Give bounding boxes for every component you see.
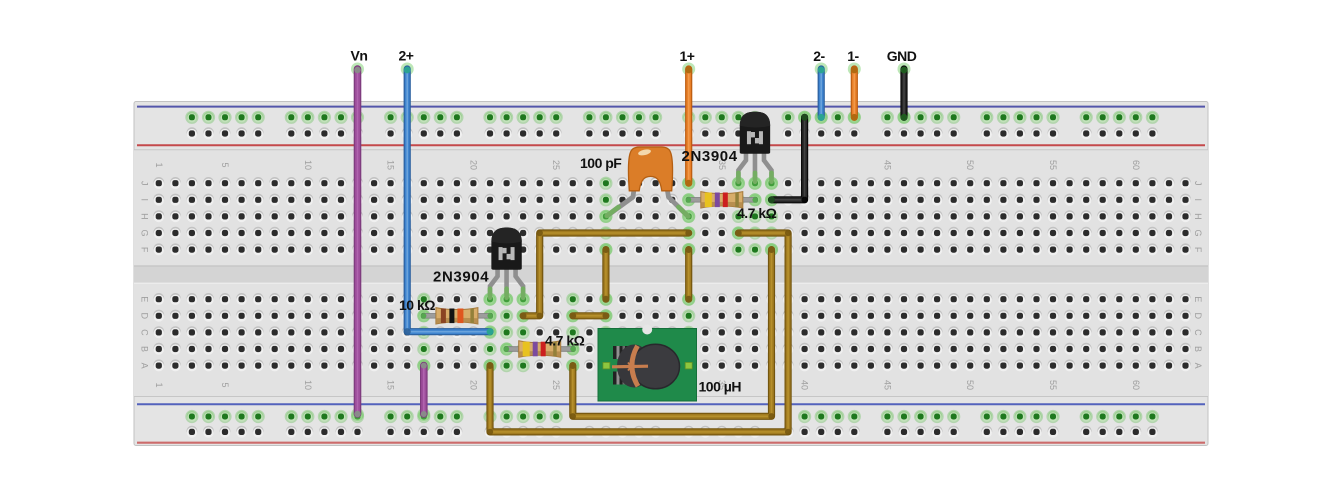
svg-text:2N3904: 2N3904 (682, 148, 738, 165)
svg-text:B: B (140, 346, 150, 352)
svg-text:4.7 kΩ: 4.7 kΩ (545, 333, 585, 349)
svg-text:5: 5 (220, 382, 230, 387)
svg-text:F: F (1193, 247, 1203, 253)
svg-text:60: 60 (1131, 160, 1141, 170)
svg-text:25: 25 (551, 160, 561, 170)
svg-text:50: 50 (965, 380, 975, 390)
svg-text:55: 55 (1048, 160, 1058, 170)
svg-text:J: J (140, 181, 150, 186)
svg-text:B: B (1193, 346, 1203, 352)
svg-text:100 µH: 100 µH (699, 379, 742, 395)
svg-text:E: E (1193, 296, 1203, 302)
svg-text:4.7 kΩ: 4.7 kΩ (737, 205, 777, 221)
svg-text:1+: 1+ (680, 48, 695, 64)
svg-text:10: 10 (303, 160, 313, 170)
svg-text:1-: 1- (847, 48, 859, 64)
svg-text:D: D (1193, 313, 1203, 320)
svg-text:A: A (140, 363, 150, 369)
svg-text:D: D (140, 313, 150, 320)
svg-text:1: 1 (154, 162, 164, 167)
svg-text:45: 45 (882, 160, 892, 170)
svg-text:100 pF: 100 pF (580, 155, 622, 171)
svg-text:45: 45 (882, 380, 892, 390)
svg-text:20: 20 (468, 380, 478, 390)
svg-text:10: 10 (303, 380, 313, 390)
svg-text:2-: 2- (813, 48, 825, 64)
svg-text:5: 5 (220, 162, 230, 167)
svg-text:A: A (1193, 363, 1203, 369)
svg-text:J: J (1193, 181, 1203, 186)
svg-text:40: 40 (800, 380, 810, 390)
svg-text:F: F (140, 247, 150, 253)
svg-text:E: E (140, 296, 150, 302)
svg-text:Vn: Vn (351, 48, 368, 64)
svg-text:20: 20 (468, 160, 478, 170)
svg-text:15: 15 (386, 160, 396, 170)
svg-text:2+: 2+ (399, 48, 414, 64)
svg-text:G: G (140, 229, 150, 236)
svg-text:60: 60 (1131, 380, 1141, 390)
svg-text:C: C (1193, 329, 1203, 336)
svg-text:10 kΩ: 10 kΩ (399, 297, 435, 313)
svg-text:2N3904: 2N3904 (433, 269, 489, 286)
svg-text:15: 15 (386, 380, 396, 390)
svg-text:25: 25 (551, 380, 561, 390)
svg-text:H: H (140, 213, 150, 220)
svg-text:55: 55 (1048, 380, 1058, 390)
svg-text:I: I (1193, 199, 1203, 202)
svg-text:G: G (1193, 229, 1203, 236)
svg-text:1: 1 (154, 382, 164, 387)
svg-text:GND: GND (887, 48, 917, 64)
svg-text:H: H (1193, 213, 1203, 220)
svg-text:50: 50 (965, 160, 975, 170)
svg-text:I: I (140, 199, 150, 202)
svg-text:C: C (140, 329, 150, 336)
